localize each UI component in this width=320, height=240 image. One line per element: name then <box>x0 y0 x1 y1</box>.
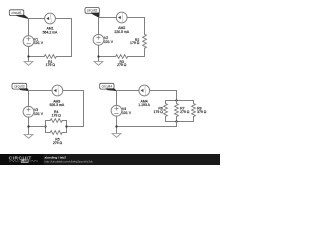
svg-text:101 V: 101 V <box>104 40 114 44</box>
wire R3 to junction <box>99 56 116 58</box>
svg-text:1.193 A: 1.193 A <box>138 103 150 107</box>
node circuit1 flag box <box>9 10 23 16</box>
resistor R5 <box>50 131 62 135</box>
ammeter AM4 <box>139 85 150 96</box>
svg-text:220.5 mA: 220.5 mA <box>114 30 129 34</box>
node circuit2 flag pointer wedge <box>91 13 99 18</box>
wire node to AM2 <box>99 17 117 19</box>
wire box right connector <box>66 121 68 133</box>
wire bottom-right to R3 <box>128 56 145 58</box>
svg-text:circuit3: circuit3 <box>14 85 25 89</box>
node circuit4 flag pointer wedge <box>106 89 117 91</box>
wire AM4 to bank entry corner <box>150 90 177 92</box>
ground <box>94 62 103 66</box>
wire R8 bottom stub <box>193 117 195 122</box>
node circuit1 flag pointer wedge <box>17 15 30 19</box>
wire node to AM3 <box>29 90 53 92</box>
svg-text:179 Ω: 179 Ω <box>46 63 56 67</box>
svg-text:379 Ω: 379 Ω <box>197 110 207 114</box>
resistor R3 <box>116 55 128 59</box>
wire right side <box>83 91 85 127</box>
wire R2 to bottom-right corner <box>144 48 146 56</box>
voltage source V2 <box>93 34 104 45</box>
wire bottom branch left stub <box>46 132 51 134</box>
wire V3 to ground <box>28 117 30 135</box>
wire R7 top stub <box>176 101 178 104</box>
wire node down to V3 <box>28 91 30 107</box>
voltage source V1 <box>23 36 34 47</box>
ammeter AM1 <box>45 13 56 24</box>
wire bottom-right to R1 <box>56 56 71 58</box>
resistor R1 <box>44 55 56 59</box>
junction dot <box>27 125 29 127</box>
wire bank bottom rail <box>166 121 194 123</box>
footer watermark bar <box>0 154 220 165</box>
junction dot <box>65 125 67 127</box>
junction dot <box>115 125 117 127</box>
svg-text:279 Ω: 279 Ω <box>117 63 127 67</box>
junction dot <box>97 55 99 57</box>
resistor R4 <box>50 119 62 123</box>
svg-text:279 Ω: 279 Ω <box>53 141 63 145</box>
wire R8 top stub <box>193 101 195 104</box>
svg-text:circuit1: circuit1 <box>11 11 22 15</box>
ground <box>24 135 33 139</box>
wire node to AM4 <box>117 90 139 92</box>
ammeter AM3 <box>52 85 63 96</box>
node circuit3 flag pointer wedge <box>19 89 29 91</box>
voltage source V3 <box>23 106 34 117</box>
junction dot <box>44 125 46 127</box>
node circuit3 flag box <box>12 83 27 89</box>
svg-text:http://circuitlab.com/c6wkq3js: http://circuitlab.com/c6wkq3jscmhfc3dc <box>45 159 94 163</box>
wire R6 bottom stub <box>165 117 167 122</box>
wire bank exit down <box>176 122 178 127</box>
svg-text:circuit4: circuit4 <box>102 85 113 89</box>
wire R6 top stub <box>165 101 167 104</box>
ammeter AM2 <box>116 12 127 23</box>
wire right side <box>71 19 73 57</box>
wire bank top rail <box>166 100 194 102</box>
wire bottom branch right stub <box>62 132 66 134</box>
wire node down to V1 <box>28 19 30 36</box>
wire V1 to ground <box>28 46 30 61</box>
svg-text:179 Ω: 179 Ω <box>154 110 164 114</box>
logo LAB line with resistor motif <box>9 160 19 162</box>
ground <box>24 62 33 66</box>
wire V2 to ground <box>98 45 100 61</box>
svg-text:179 Ω: 179 Ω <box>52 113 62 117</box>
junction dot <box>175 120 177 122</box>
wire bottom to parallel box <box>67 126 84 128</box>
svg-text:circuit2: circuit2 <box>87 9 98 13</box>
svg-text:564.2 mA: 564.2 mA <box>43 30 58 34</box>
wire box left connector <box>45 121 47 133</box>
wire AM2 to top-right corner <box>127 17 144 19</box>
wire bank entry down <box>176 91 178 101</box>
voltage source V4 <box>111 105 122 116</box>
wire R7 bottom stub <box>176 117 178 122</box>
svg-text:279 Ω: 279 Ω <box>180 110 190 114</box>
svg-text:179 Ω: 179 Ω <box>130 41 140 45</box>
resistor R8 <box>192 104 196 117</box>
svg-text:101 V: 101 V <box>34 112 44 116</box>
wire node to AM1 <box>29 18 45 20</box>
svg-text:LAB: LAB <box>21 159 29 163</box>
resistor R7 <box>175 104 179 117</box>
ground <box>112 134 121 138</box>
node circuit4 flag box <box>100 83 114 89</box>
wire bank exit to V4 junction <box>117 126 177 128</box>
wire top branch right stub <box>62 120 66 122</box>
wire top branch left stub <box>46 120 51 122</box>
wire V4 to ground <box>116 116 118 134</box>
svg-text:101 V: 101 V <box>34 41 44 45</box>
svg-text:101 V: 101 V <box>122 111 132 115</box>
wire R1 to junction <box>29 56 45 58</box>
wire AM3 to top-right corner <box>63 90 84 92</box>
wire right side to R2 <box>144 18 146 35</box>
wire AM1 to top-right corner <box>55 18 71 20</box>
wire node down to V4 <box>116 91 118 106</box>
node circuit2 flag box <box>85 8 99 14</box>
svg-text:926.3 mA: 926.3 mA <box>49 103 64 107</box>
resistor R2 <box>143 34 147 48</box>
wire box to V3 junction <box>29 126 46 128</box>
resistor R6 <box>164 104 168 117</box>
wire node down to V2 <box>98 18 100 35</box>
junction dot <box>175 99 177 101</box>
junction dot <box>27 55 29 57</box>
